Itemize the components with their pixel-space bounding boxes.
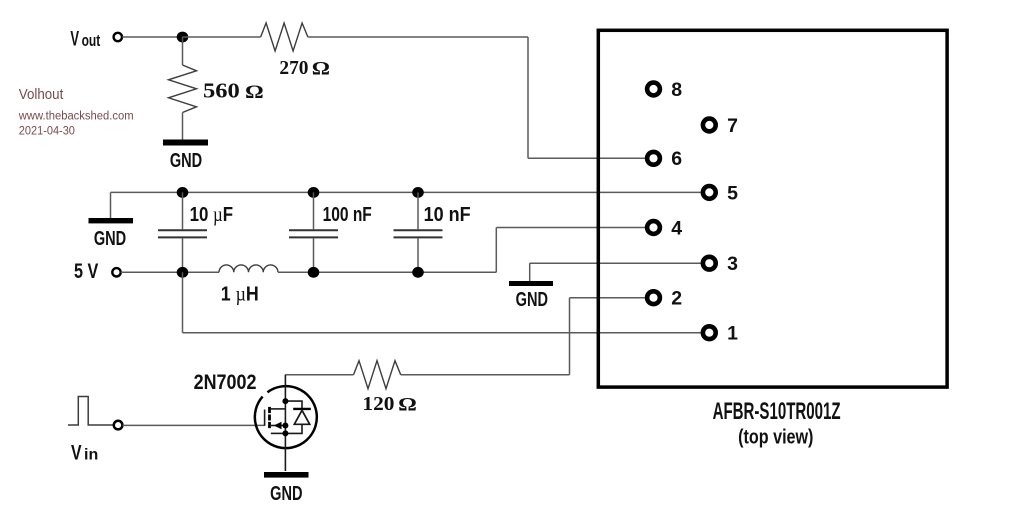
svg-text:10 nF: 10 nF bbox=[424, 204, 471, 226]
svg-text:4: 4 bbox=[671, 217, 682, 239]
pin 2 bbox=[647, 288, 682, 310]
transistor Q1 2N7002 bbox=[255, 375, 317, 471]
pin 4 bbox=[647, 217, 682, 239]
svg-text:8: 8 bbox=[671, 79, 682, 101]
svg-text:3: 3 bbox=[727, 253, 738, 275]
IC U1 AFBR-S10TR001Z body bbox=[598, 30, 947, 387]
wire 5V to inductor bbox=[121, 271, 219, 273]
svg-text:V: V bbox=[71, 440, 82, 464]
label 560 ohm bbox=[203, 79, 264, 102]
junction top rail C1 bbox=[177, 187, 189, 198]
wire R2 to ground bbox=[182, 113, 184, 140]
svg-text:GND: GND bbox=[170, 149, 202, 172]
wire to pin 4 bbox=[496, 227, 653, 229]
pin 6 bbox=[647, 148, 682, 170]
wire rail down to GND2 bbox=[110, 192, 112, 218]
junction bottom rail B1 bbox=[177, 267, 189, 278]
resistor R2 560 ohm bbox=[169, 65, 197, 113]
inductor L1 1uH bbox=[219, 265, 278, 272]
wire drain to R3 bbox=[285, 374, 353, 376]
svg-text:100 nF: 100 nF bbox=[323, 203, 372, 226]
wire pin 3 to GND3 bbox=[530, 263, 710, 281]
wire to pin 1 bbox=[183, 332, 710, 334]
svg-text:out: out bbox=[82, 32, 101, 50]
wire inductor to corner bbox=[278, 271, 496, 273]
wire top rail to pin 5 bbox=[111, 191, 703, 193]
svg-text:(top view): (top view) bbox=[738, 426, 813, 448]
svg-text:6: 6 bbox=[671, 148, 682, 170]
svg-text:GND: GND bbox=[516, 288, 548, 311]
svg-text:1: 1 bbox=[727, 323, 738, 345]
label 100nF bbox=[323, 203, 372, 226]
svg-text:Ω: Ω bbox=[245, 81, 264, 103]
label AFBR-S10TR001Z bbox=[713, 399, 841, 448]
svg-text:10 µF: 10 µF bbox=[190, 202, 233, 226]
wire to pin 6 bbox=[528, 157, 654, 159]
capacitor C1 10uF bbox=[158, 192, 207, 272]
svg-text:2021-04-30: 2021-04-30 bbox=[19, 124, 75, 138]
wire junction B1 down bbox=[182, 272, 184, 332]
label 270 ohm bbox=[279, 57, 330, 79]
svg-text:5 V: 5 V bbox=[74, 260, 99, 284]
label 120 ohm bbox=[362, 393, 416, 415]
note author text bbox=[18, 87, 134, 138]
capacitor C3 10nF bbox=[394, 192, 443, 272]
svg-text:Volhout: Volhout bbox=[19, 87, 64, 104]
label 2N7002 bbox=[194, 371, 257, 395]
svg-text:120: 120 bbox=[362, 394, 394, 415]
wire Vout to node A bbox=[122, 36, 182, 38]
pin 1 bbox=[703, 323, 738, 345]
junction node A bbox=[177, 32, 189, 43]
node Vout terminal bbox=[114, 33, 122, 41]
svg-text:V: V bbox=[70, 26, 79, 50]
junction bottom rail B3 bbox=[412, 267, 424, 278]
wire node A to R1 bbox=[183, 36, 261, 38]
ground GND3 bbox=[509, 281, 553, 311]
wire pin 2 path bbox=[401, 298, 654, 375]
source Vin pulse symbol bbox=[68, 397, 114, 426]
svg-text:560: 560 bbox=[203, 79, 240, 102]
ground GND1 bbox=[163, 140, 208, 172]
label 10uF bbox=[190, 202, 233, 226]
svg-text:AFBR-S10TR001Z: AFBR-S10TR001Z bbox=[713, 399, 841, 425]
svg-text:5: 5 bbox=[727, 182, 738, 204]
wire corner down bbox=[527, 37, 529, 158]
junction top rail C3 bbox=[412, 187, 424, 198]
node 5V terminal bbox=[112, 268, 120, 276]
svg-text:GND: GND bbox=[270, 481, 302, 504]
wire corner up to pin4 row bbox=[495, 228, 497, 273]
pin 3 bbox=[703, 253, 738, 275]
label Vout bbox=[70, 26, 100, 50]
svg-text:2: 2 bbox=[671, 288, 682, 310]
svg-text:www.thebackshed.com: www.thebackshed.com bbox=[18, 109, 134, 123]
svg-text:7: 7 bbox=[727, 115, 738, 137]
resistor R1 270 ohm bbox=[261, 23, 308, 51]
svg-text:Ω: Ω bbox=[312, 57, 330, 79]
resistor R3 120 ohm bbox=[354, 361, 401, 389]
svg-text:in: in bbox=[84, 446, 98, 463]
svg-text:Ω: Ω bbox=[398, 393, 417, 415]
junction top rail C2 bbox=[308, 187, 320, 198]
wire Vin to gate bbox=[123, 424, 265, 426]
pin 8 bbox=[647, 79, 682, 101]
label 5V bbox=[74, 260, 99, 284]
pin 5 bbox=[703, 182, 738, 204]
capacitor C2 100nF bbox=[289, 192, 338, 272]
label 10nF bbox=[424, 204, 471, 226]
ground GND2 bbox=[89, 218, 134, 250]
pin 7 bbox=[703, 115, 738, 137]
svg-text:GND: GND bbox=[94, 227, 126, 250]
node Vin terminal bbox=[114, 421, 123, 430]
label 1uH bbox=[221, 283, 259, 305]
svg-text:270: 270 bbox=[279, 58, 308, 79]
wire node A down to R2 bbox=[182, 37, 184, 65]
junction bottom rail B2 bbox=[308, 267, 320, 278]
svg-text:2N7002: 2N7002 bbox=[194, 371, 257, 395]
label Vin bbox=[71, 440, 98, 464]
ground GND4 bbox=[264, 472, 309, 505]
svg-text:1 µH: 1 µH bbox=[221, 283, 259, 305]
wire R1 to corner bbox=[308, 36, 528, 38]
